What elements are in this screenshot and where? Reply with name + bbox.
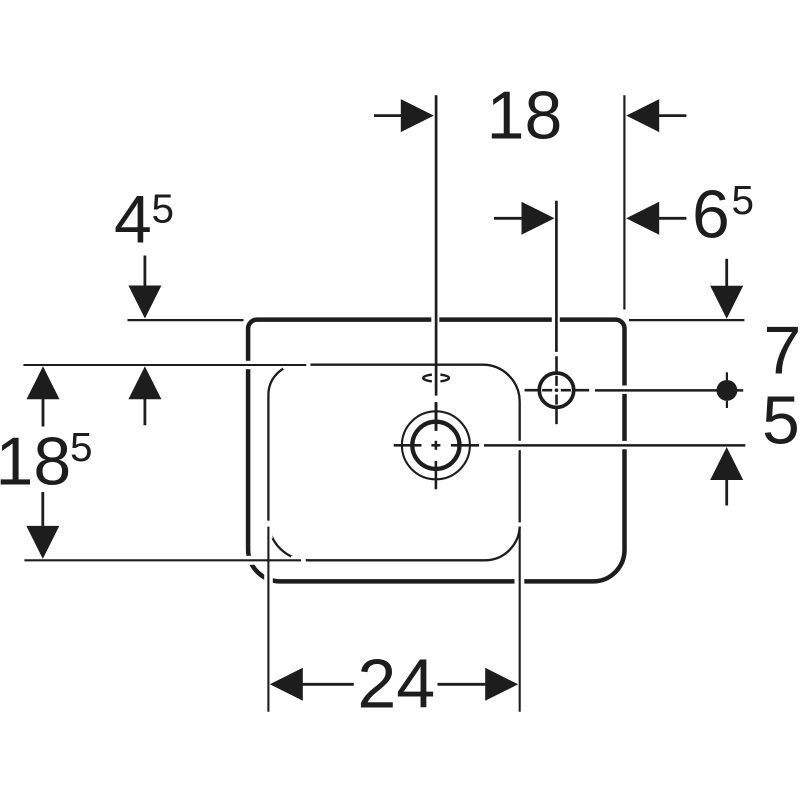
dimension 24: left line xyxy=(303,683,354,686)
dimension 4.5: tail above xyxy=(143,256,146,287)
dimension 6.5: tail line left xyxy=(494,217,522,220)
dimension 18: right arrowhead xyxy=(626,99,659,132)
faucet crosshair horizontal segments xyxy=(525,389,590,392)
drain center cross vertical xyxy=(435,441,438,450)
dimension 7: tail above xyxy=(725,259,728,286)
svg-text:5: 5 xyxy=(70,424,93,470)
dimension 18.5: down arrowhead xyxy=(26,526,59,559)
dimension 24: right arrowhead xyxy=(485,668,518,701)
dimension 6.5: tail line right xyxy=(659,217,686,220)
halo gap on bowl right edge at drain-height line xyxy=(516,441,523,450)
right edge extension line (dim 18 / 6.5) xyxy=(623,95,625,309)
drain crosshair tick down xyxy=(435,461,438,489)
drain crosshair tick left xyxy=(394,444,422,447)
faucet hole circle xyxy=(539,373,573,407)
washbasin outer outline xyxy=(248,320,624,582)
svg-text:18: 18 xyxy=(0,424,71,500)
drain crosshair tick right xyxy=(451,444,479,447)
halo gap on outline right edge at drain-height line xyxy=(620,441,630,449)
drain inner circle xyxy=(412,422,459,469)
centerline dash below overflow xyxy=(435,403,438,431)
gap on bowl top-left corner and top edge at extension end xyxy=(283,361,310,370)
faucet centerline (extension of dim 6.5) xyxy=(555,201,558,352)
dimension 18: tail line right xyxy=(659,114,686,117)
inner bowl outline xyxy=(268,365,519,561)
svg-text:5: 5 xyxy=(152,185,175,231)
halo gap on outline bottom-left corner at width extension xyxy=(264,566,273,586)
svg-text:18: 18 xyxy=(487,77,563,153)
faucet crosshair vertical segments xyxy=(555,356,558,424)
gap on bowl right edge above width extension xyxy=(516,522,523,526)
halo gap on outline top edge at faucet centerline xyxy=(552,314,560,325)
drain outer circle xyxy=(402,411,470,479)
halo gap on outline right edge at faucet-height line xyxy=(620,386,630,394)
halo gap on outline bottom edge at width extension xyxy=(515,576,525,586)
bowl top extension line xyxy=(23,364,306,366)
overflow slot ellipse xyxy=(423,375,449,382)
halo gap on outline bottom-left corner at bowl-bottom extension xyxy=(243,556,256,565)
dimension 5: up arrowhead xyxy=(710,447,743,480)
svg-text:5: 5 xyxy=(762,383,800,459)
gap on bowl left edge above width extension xyxy=(264,521,272,539)
dimension 6.5: right arrowhead xyxy=(626,202,659,235)
svg-text:7: 7 xyxy=(764,312,800,388)
dimension 18: left arrowhead xyxy=(401,99,434,132)
marker dot tick below xyxy=(726,401,728,408)
top edge extension line right xyxy=(629,319,744,321)
bowl bottom extension line xyxy=(24,559,301,561)
faucet height marker dot xyxy=(717,380,738,401)
dimension 18.5: line to down arrow xyxy=(41,492,44,526)
gap on bowl bottom-left corner and bottom edge at extension end xyxy=(291,556,306,565)
dimension 18: tail line left xyxy=(374,114,401,117)
drain centerline (extension of dim 18) xyxy=(435,95,438,395)
dimension 6.5: left arrowhead xyxy=(522,202,555,235)
dimension 24: left arrowhead xyxy=(270,668,303,701)
top edge extension line left xyxy=(128,319,244,321)
halo gap across overflow at centerline xyxy=(432,371,441,385)
drain height line xyxy=(484,444,745,447)
dimension 18.5: up arrowhead xyxy=(27,366,60,399)
svg-text:6: 6 xyxy=(692,177,730,253)
svg-text:5: 5 xyxy=(732,177,755,223)
svg-text:24: 24 xyxy=(357,645,435,723)
drain center cross horizontal xyxy=(431,444,440,447)
halo gap on outline top edge at drain centerline xyxy=(431,314,439,325)
drain crosshair tick up xyxy=(435,402,438,431)
dimension 5: tail below xyxy=(725,480,728,506)
dimension 7: down arrowhead at top edge xyxy=(710,286,743,319)
bowl width extension line left xyxy=(267,527,269,712)
dimension 4.5: down arrowhead xyxy=(128,286,161,319)
centerline repaint through overflow xyxy=(435,370,438,386)
marker dot tick above xyxy=(726,372,728,380)
dimension 4.5: up arrowhead xyxy=(128,366,161,399)
dimension 18.5: tail below up arrow xyxy=(42,399,45,427)
halo gap on outline left edge at bowl-top extension xyxy=(243,361,254,369)
dimension 4.5: tail below xyxy=(143,399,146,425)
svg-text:4: 4 xyxy=(114,182,152,258)
bowl width extension line right xyxy=(519,527,521,712)
dimension 24: right line xyxy=(438,683,486,686)
faucet height line xyxy=(595,389,743,392)
